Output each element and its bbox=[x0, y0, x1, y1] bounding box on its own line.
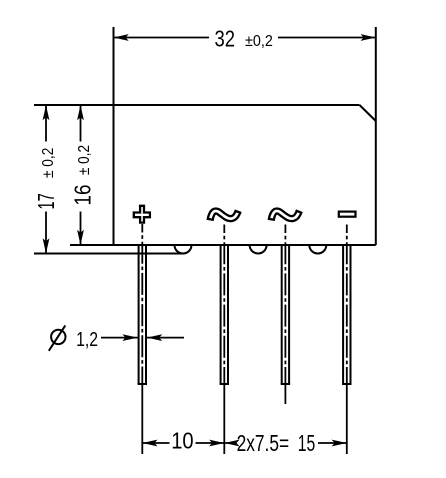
svg-text:15: 15 bbox=[298, 430, 316, 456]
svg-text:1,2: 1,2 bbox=[76, 329, 98, 351]
svg-text:±0,2: ±0,2 bbox=[245, 33, 273, 50]
svg-text:10: 10 bbox=[171, 428, 193, 454]
svg-text:32: 32 bbox=[215, 26, 236, 52]
svg-text:± 0,2: ± 0,2 bbox=[76, 145, 93, 175]
svg-text:17: 17 bbox=[33, 193, 59, 209]
svg-text:16: 16 bbox=[69, 185, 95, 206]
svg-text:2x7.5=: 2x7.5= bbox=[237, 430, 290, 456]
svg-text:± 0,2: ± 0,2 bbox=[40, 148, 57, 178]
